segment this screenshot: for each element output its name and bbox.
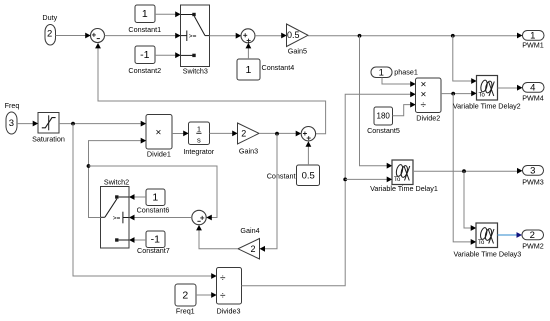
svg-text:To: To: [479, 93, 486, 99]
constant C4 value 1: [237, 59, 294, 80]
outport PWM4: [522, 83, 544, 103]
svg-text:PWM1: PWM1: [522, 40, 544, 49]
divide block Divide3: [217, 268, 242, 316]
wire VariableTimeDelay2 to PWM4: [498, 85, 523, 91]
wire Freq to Saturation: [17, 121, 38, 127]
wire Constant2 to Switch3 input3: [155, 52, 181, 58]
constant C0 value 0.5: [267, 165, 320, 186]
svg-text:Gain3: Gain3: [239, 147, 258, 156]
sum junction Sum4: [192, 210, 206, 224]
svg-text:Variable Time Delay2: Variable Time Delay2: [453, 101, 521, 110]
wire Duty to Sum1: [56, 33, 91, 39]
svg-text:Saturation: Saturation: [32, 134, 65, 143]
wire Gain5 to PWM1: [308, 33, 523, 39]
wire Constant7 to Switch2 input3: [129, 237, 146, 243]
wire Integrator to Gain3: [210, 131, 238, 137]
svg-text:1: 1: [197, 125, 201, 134]
gain G5 Gain5 value 0.5: [287, 24, 309, 56]
wire Gain3 to Sum3: [259, 131, 301, 137]
svg-text:1: 1: [245, 64, 251, 76]
svg-text:2: 2: [47, 29, 52, 40]
svg-text:>=: >=: [189, 33, 197, 40]
svg-text:0.5: 0.5: [287, 30, 300, 40]
delay block VariableTimeDelay2: [453, 76, 521, 111]
svg-text:2: 2: [250, 244, 255, 254]
svg-text:Integrator: Integrator: [183, 147, 214, 156]
wire Switch2 output branch to Sum4 right input: [89, 166, 218, 220]
outport PWM1: [522, 31, 544, 50]
svg-text:Constant4: Constant4: [262, 63, 295, 72]
wire Saturation to Divide1 input1: [59, 121, 146, 127]
svg-text:2: 2: [241, 128, 246, 138]
node junction on PWM1 wire x360: [358, 34, 362, 38]
wire Divide3 to Divide2 input2: [242, 91, 416, 285]
gain G3 Gain3 value 2: [238, 123, 260, 156]
svg-text:Constant2: Constant2: [128, 66, 161, 75]
node junction Switch2 output branch: [87, 164, 91, 168]
constant C2 value -1: [128, 46, 161, 75]
wire Gain4 to Sum4 bottom: [196, 225, 238, 249]
wire Divide2 branch to VariableTimeDelay3 input2: [453, 94, 476, 245]
svg-text:1: 1: [379, 67, 384, 78]
svg-text:-1: -1: [140, 49, 149, 61]
wire Switch3 to Sum2: [210, 33, 242, 39]
svg-text:To: To: [394, 177, 401, 183]
node junction Divide2 output branch: [451, 92, 455, 96]
svg-text:×: ×: [420, 90, 426, 101]
svg-text:PWM4: PWM4: [522, 93, 544, 102]
wire VariableTimeDelay3 to PWM2 selected blue: [498, 232, 523, 238]
node junction VariableTimeDelay1 output branch: [462, 169, 466, 173]
svg-text:phase1: phase1: [394, 67, 418, 76]
wire Sum2 to Gain5: [255, 33, 287, 39]
svg-text:Switch2: Switch2: [104, 177, 129, 186]
svg-text:PWM2: PWM2: [522, 241, 544, 250]
svg-text:÷: ÷: [220, 273, 226, 284]
switch U2 Switch2 mirrored: [101, 177, 130, 248]
wire branch PWM1 line to VariableTimeDelay2 input1: [453, 36, 477, 84]
switch U1 Switch3: [181, 5, 210, 75]
delay block VariableTimeDelay3: [454, 223, 522, 258]
constant C1 value 1: [128, 5, 161, 34]
integrator block 1/s: [183, 122, 214, 156]
sum junction Sum1: [91, 29, 105, 43]
wire Constant1 to Switch3 input1: [155, 11, 181, 17]
svg-text:Freq: Freq: [5, 101, 20, 110]
svg-text:1: 1: [142, 8, 148, 20]
svg-text:Duty: Duty: [42, 13, 57, 22]
saturation block Saturation: [32, 113, 65, 144]
inport phase1: [371, 67, 418, 78]
wire phase1 to Divide2 input1: [382, 78, 416, 87]
wire Divide3 branch to VariableTimeDelay1 input2: [345, 177, 392, 183]
gain G4 Gain4 value 2 mirrored: [238, 226, 260, 259]
outport PWM3: [522, 166, 544, 187]
svg-text:÷: ÷: [220, 291, 226, 302]
node junction on PWM1 wire x453: [451, 34, 455, 38]
divide block Divide2: [416, 78, 442, 122]
svg-text:Constant6: Constant6: [137, 205, 170, 214]
wire Switch2 output to Divide1 input2: [89, 138, 147, 218]
svg-text:-1: -1: [151, 234, 160, 246]
svg-text:Gain4: Gain4: [240, 226, 259, 235]
svg-text:Gain5: Gain5: [288, 47, 307, 56]
wire feedback Sum3 to Sum1: [95, 43, 326, 134]
product block Divide1: [146, 115, 172, 159]
svg-text:180: 180: [377, 112, 391, 121]
wire Sum4 to Switch2 control: [129, 215, 192, 221]
svg-text:Constant: Constant: [267, 171, 296, 180]
constant C6 value 1: [137, 189, 170, 214]
svg-text:0.5: 0.5: [302, 170, 315, 181]
wire Constant4 to Sum2: [246, 43, 252, 59]
svg-text:Divide3: Divide3: [217, 307, 241, 316]
svg-text:Constant1: Constant1: [128, 25, 161, 34]
constant C7 value -1: [137, 231, 170, 255]
constant Freq1 value 2: [175, 284, 196, 316]
wire Constant 0.5 to Sum3: [306, 141, 312, 165]
wire Constant5 to Divide2 input3: [393, 102, 416, 116]
svg-text:Constant7: Constant7: [137, 246, 170, 255]
inport Freq: [5, 101, 20, 134]
svg-text:Freq1: Freq1: [176, 307, 195, 316]
sum junction Sum3: [301, 127, 315, 141]
wire Constant6 to Switch2 input1: [129, 194, 146, 200]
wire Sum1 to Switch3 control: [105, 33, 181, 39]
constant C5 value 180: [367, 107, 400, 135]
wire VariableTimeDelay1 to PWM3: [413, 168, 523, 174]
svg-text:2: 2: [182, 289, 188, 301]
wire Freq1 to Divide3 input2: [196, 292, 217, 298]
svg-text:Constant5: Constant5: [367, 126, 400, 135]
svg-text:÷: ÷: [420, 100, 426, 111]
inport Duty: [42, 13, 57, 45]
svg-text:Divide2: Divide2: [416, 113, 440, 122]
svg-text:3: 3: [530, 166, 535, 177]
svg-text:Divide1: Divide1: [147, 150, 171, 159]
wire Divide1 to Integrator: [172, 131, 189, 137]
sum junction Sum2: [241, 29, 255, 43]
node junction after Saturation: [71, 122, 75, 126]
svg-text:3: 3: [9, 118, 14, 129]
outport PWM2: [522, 230, 544, 250]
svg-text:To: To: [478, 240, 485, 246]
svg-text:1: 1: [152, 192, 158, 204]
wire Saturation branch to Divide3 input1: [73, 124, 217, 279]
svg-text:Switch3: Switch3: [183, 66, 208, 75]
wire branch PWM1 line to VariableTimeDelay1 input1: [360, 36, 393, 169]
wire VariableTimeDelay1 branch to VariableTimeDelay3 input1: [464, 171, 476, 231]
wire Divide2 to VariableTimeDelay2 input2: [441, 91, 477, 97]
svg-text:s: s: [197, 135, 201, 144]
svg-text:×: ×: [155, 128, 161, 139]
svg-text:PWM3: PWM3: [522, 177, 544, 186]
wire Gain3 branch to Gain4 input: [260, 134, 278, 252]
svg-text:Variable Time Delay1: Variable Time Delay1: [370, 184, 438, 193]
svg-text:>=: >=: [113, 215, 121, 222]
node junction Gain3 output: [275, 132, 279, 136]
node junction Divide3 output branch: [343, 178, 347, 182]
svg-text:2: 2: [530, 230, 535, 241]
delay block VariableTimeDelay1: [370, 160, 438, 193]
svg-text:4: 4: [530, 83, 535, 94]
svg-text:Variable Time Delay3: Variable Time Delay3: [454, 249, 522, 258]
